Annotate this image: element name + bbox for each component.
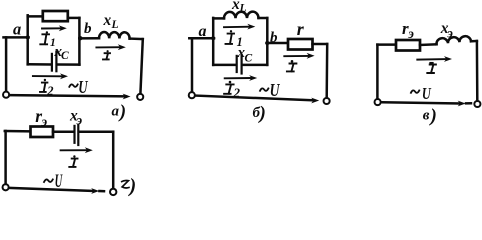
current arrow I2 (circuit a)	[33, 75, 62, 77]
current arrow I (circuit a)	[96, 46, 121, 48]
capacitor x_e plate 2 (g)	[77, 125, 79, 145]
terminal right (b)	[324, 98, 330, 104]
resistor r_e (circuit v)	[396, 40, 420, 51]
terminal left (b)	[189, 92, 195, 98]
label I1 with dot	[40, 34, 49, 44]
wire top branch left (b)	[213, 17, 224, 20]
svg-text:L: L	[239, 3, 247, 15]
svg-text:x: x	[103, 12, 112, 29]
svg-text:): )	[429, 106, 437, 127]
svg-text:2: 2	[233, 85, 241, 100]
label I1 with dot (circuit b)	[226, 34, 235, 44]
wire bottom branch right	[58, 63, 80, 66]
current arrow I (circuit v)	[417, 58, 446, 61]
terminal right (v)	[474, 101, 480, 107]
resistor r_e (circuit g)	[31, 127, 54, 138]
wire node a horizontal	[4, 36, 29, 39]
label I2 with dot (circuit a)	[40, 83, 47, 92]
wire left vertical (v)	[376, 45, 379, 100]
svg-text:): )	[258, 103, 266, 124]
svg-text:b: b	[84, 21, 92, 37]
inductor xL coil (circuit b)	[224, 12, 259, 19]
svg-text:a: a	[199, 23, 207, 40]
terminal left (v)	[375, 99, 381, 105]
voltage arrow U (circuit g bottom wire)	[9, 188, 93, 191]
current arrow I1 (circuit b)	[224, 26, 250, 29]
svg-text:э: э	[41, 114, 48, 129]
wire bottom branch left	[28, 63, 51, 66]
wire right vertical (b)	[325, 44, 328, 98]
capacitor xC plate 1 (b)	[236, 56, 238, 72]
current arrow I (circuit b)	[284, 55, 309, 57]
wire node b to coil	[79, 37, 99, 40]
capacitor x_e plate 1 (g)	[73, 126, 75, 143]
capacitor xC plate 2 (b)	[241, 56, 243, 74]
wire right vertical (v)	[476, 41, 479, 101]
node junction dot at a-branch	[26, 35, 30, 39]
svg-text:2: 2	[46, 84, 53, 98]
label I2 with dot (circuit b)	[224, 84, 234, 93]
svg-text:э: э	[76, 113, 83, 128]
wire resistor to coil (v)	[420, 43, 437, 46]
svg-text:b: b	[270, 30, 278, 46]
label ~U (circuit v)	[411, 90, 419, 93]
label I with dot (circuit g)	[69, 159, 77, 167]
svg-text:C: C	[61, 50, 69, 62]
wire top branch right	[68, 17, 80, 20]
current arrow I (circuit g)	[61, 149, 87, 151]
svg-text:э: э	[407, 26, 414, 41]
wire top branch left	[28, 15, 44, 18]
svg-text:C: C	[245, 53, 253, 65]
wire top left (v)	[377, 43, 396, 46]
wire resistor to corner (b)	[313, 43, 328, 46]
label I with dot (circuit v)	[427, 65, 436, 74]
voltage arrow U (circuit v bottom wire)	[382, 102, 461, 103]
terminal left (a)	[3, 92, 9, 98]
wire right vertical (g)	[112, 132, 115, 189]
capacitor xC plate 1	[51, 54, 53, 71]
svg-text:): )	[128, 175, 137, 197]
voltage arrow U (circuit a bottom wire)	[10, 95, 126, 96]
inductor xL coil (circuit a)	[99, 32, 130, 39]
inductor x_e coil (circuit v)	[436, 36, 471, 44]
svg-text:L: L	[111, 19, 119, 31]
voltage arrow U (circuit b bottom wire)	[196, 96, 314, 101]
node b junction dot (b)	[265, 41, 269, 45]
svg-text:U: U	[55, 172, 63, 192]
svg-text:r: r	[297, 19, 305, 39]
wire node a horizontal (b)	[189, 37, 214, 40]
wire left vertical	[5, 37, 8, 91]
svg-text:U: U	[78, 78, 88, 98]
capacitor xC plate 2	[55, 52, 57, 72]
label ~U (circuit a)	[69, 84, 77, 87]
label г) caption	[122, 180, 129, 187]
svg-text:U: U	[270, 81, 280, 100]
wire resistor to capacitor (g)	[53, 130, 74, 133]
wire capacitor to corner (g)	[80, 130, 114, 133]
terminal right (g)	[110, 189, 116, 195]
label I with dot (circuit a)	[103, 53, 110, 59]
wire top left (g)	[5, 130, 31, 133]
wire parallel-box right vertical	[78, 18, 81, 65]
label I with dot (circuit b)	[287, 64, 297, 72]
current arrow I2 (circuit b)	[225, 77, 252, 79]
resistor R (top branch, circuit a)	[43, 11, 68, 21]
wire right vertical	[140, 39, 142, 94]
svg-text:U: U	[422, 85, 432, 103]
wire node b to resistor (b)	[267, 42, 288, 45]
wire top branch right (b)	[259, 17, 268, 20]
wire bottom branch left (b)	[213, 64, 235, 67]
wire coil to corner	[130, 37, 143, 40]
svg-text:): )	[118, 102, 126, 123]
resistor r (circuit b)	[288, 39, 313, 50]
wire stub after arrow (g)	[99, 190, 104, 193]
svg-text:э: э	[446, 26, 453, 41]
label ~U (circuit b)	[260, 88, 268, 91]
label ~U (circuit g)	[44, 179, 53, 182]
node junction dot a (b)	[211, 36, 215, 40]
svg-text:a: a	[13, 19, 21, 38]
wire parallel-box left vertical (b)	[212, 18, 215, 65]
current arrow I1 (circuit a)	[42, 27, 62, 29]
wire left vertical (g)	[4, 131, 7, 184]
svg-text:в: в	[423, 108, 430, 124]
terminal left (g)	[3, 184, 9, 190]
wire parallel-box right vertical (b)	[266, 18, 269, 65]
node b junction dot	[78, 36, 82, 40]
wire bottom branch right (b)	[243, 64, 267, 67]
terminal right (a)	[137, 94, 143, 100]
svg-text:а: а	[112, 104, 120, 120]
wire stub after arrow (v)	[466, 102, 471, 105]
wire coil to corner (v)	[471, 40, 477, 43]
wire parallel-box left vertical	[26, 15, 29, 64]
wire left vertical (b)	[191, 38, 194, 92]
